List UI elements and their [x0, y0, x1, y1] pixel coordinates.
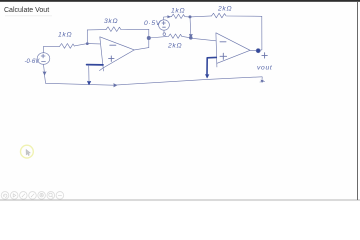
svg-text:1kΩ: 1kΩ	[58, 32, 72, 39]
label 0.5V	[144, 20, 161, 27]
label -0.6V	[25, 59, 41, 65]
bottom rail wire	[46, 77, 262, 85]
right panel edge line	[357, 2, 359, 200]
wire feedback2 from node C to R5	[190, 16, 212, 17]
arrowhead on V2 top wire	[168, 16, 171, 18]
top black bar	[0, 0, 360, 2]
svg-text:2kΩ: 2kΩ	[217, 6, 232, 13]
wire R5 to right corner	[227, 15, 262, 17]
wire right vertical down to output	[258, 16, 262, 50]
label 1k left	[58, 32, 72, 39]
wire U2 output	[250, 49, 258, 51]
wire R1 to op-amp inverting input	[75, 44, 100, 46]
label 2k lower	[167, 43, 182, 50]
cursor arrow	[26, 149, 31, 155]
svg-text:1kΩ: 1kΩ	[171, 8, 185, 15]
wire node B to U2 inverting input	[191, 38, 216, 41]
minus terminal marker at rail end	[261, 77, 263, 81]
bottom toolbar icon circles	[1, 192, 64, 200]
plus terminal symbol	[262, 53, 267, 58]
wire V2 top to R3	[163, 17, 171, 20]
resistor R4 2k lower	[166, 34, 182, 38]
wire U2 plus input to rail	[207, 57, 216, 74]
svg-text:3kΩ: 3kΩ	[104, 18, 118, 25]
voltage source V2 0.5V	[159, 20, 170, 30]
arrowhead into node B	[189, 34, 192, 37]
bottom border line	[0, 199, 360, 201]
svg-text:2kΩ: 2kΩ	[167, 43, 182, 50]
header divider line	[5, 15, 52, 17]
wire R2 to output node	[121, 28, 149, 30]
arrowhead on rail	[114, 84, 117, 87]
wire V1 arrow to rail corner	[44, 74, 45, 83]
svg-text:0·5V: 0·5V	[144, 20, 161, 27]
wire U1 plus input horizontal	[87, 64, 103, 66]
svg-text:vout: vout	[257, 65, 273, 72]
node B dot	[189, 36, 192, 39]
node at feedback junction	[86, 43, 88, 45]
arrowhead plus input rail	[206, 74, 209, 78]
svg-text:-0·6V: -0·6V	[25, 59, 41, 65]
wire node C down to node B	[189, 17, 192, 35]
wire V1 top to R1	[43, 46, 59, 52]
label 1k upper	[171, 8, 185, 15]
wire feedback left vertical	[86, 30, 88, 44]
resistor R5 2k feedback	[212, 13, 227, 18]
wire U1 plus input vertical to rail	[88, 65, 90, 81]
yellow cursor highlight circle	[21, 145, 34, 158]
wire R3 to node C	[185, 16, 190, 18]
label 2k feedback	[217, 6, 232, 13]
wire feedback top to R2	[87, 29, 106, 31]
resistor R3 1k upper	[172, 14, 185, 18]
svg-text:Calculate Vout: Calculate Vout	[4, 7, 49, 14]
wire node A to lower branch	[149, 37, 166, 38]
node C dot	[189, 16, 191, 18]
output node dot	[256, 49, 260, 53]
wire V2 bottom stub to lower wire	[163, 30, 165, 33]
arrowhead V1 bottom	[43, 72, 46, 75]
wire output node vertical	[148, 29, 150, 47]
voltage source V1 0.6V	[37, 53, 50, 65]
op-amp U1	[99, 37, 134, 71]
label vout	[257, 65, 273, 72]
resistor R1 1k	[60, 44, 75, 49]
wire V1 bottom stub down	[43, 64, 46, 71]
label 3k	[104, 18, 118, 25]
arrowhead U1 plus rail	[87, 81, 90, 85]
node A junction dot	[147, 36, 150, 39]
op-amp U2	[216, 33, 250, 67]
wire R4 to node B	[182, 36, 190, 37]
wire U1 output	[134, 48, 149, 50]
resistor R2 3k feedback	[106, 27, 121, 32]
